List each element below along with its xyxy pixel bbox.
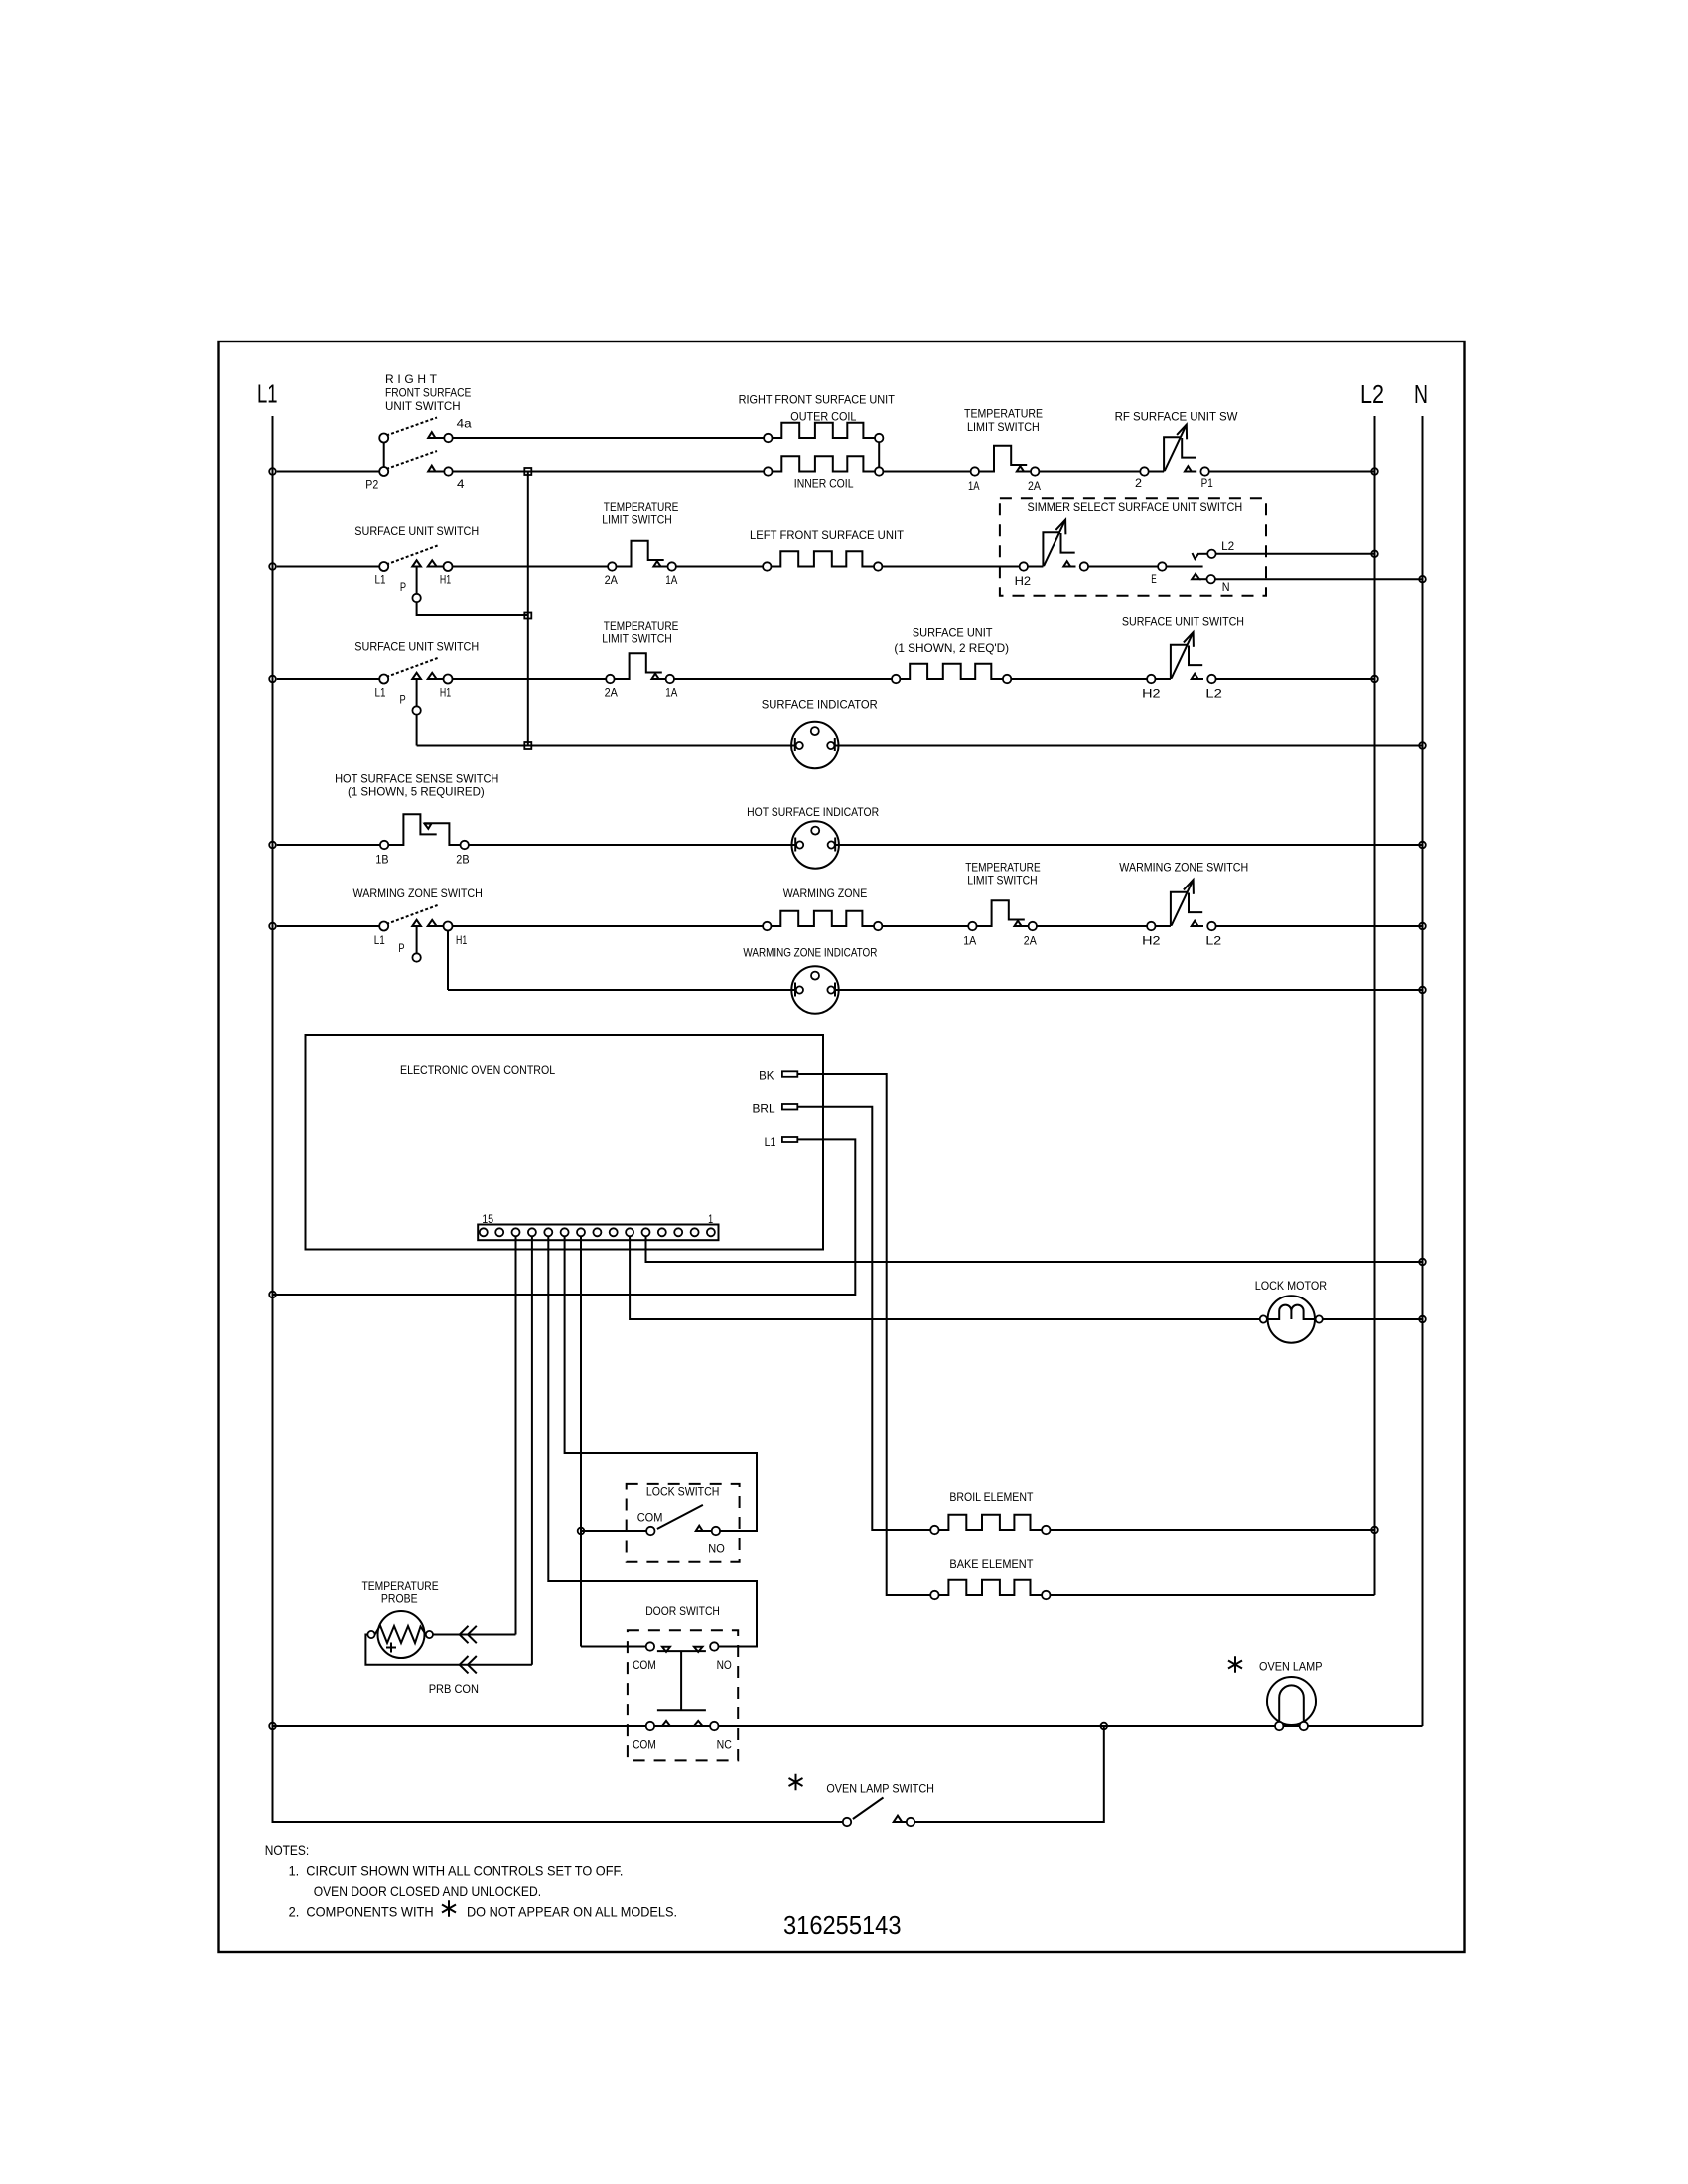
wire row2 coil to simmer box xyxy=(882,566,1019,568)
wire row1 temp limit to RF switch xyxy=(1039,471,1140,473)
motor lock motor xyxy=(1260,1296,1323,1342)
coil right front surface unit inner coil xyxy=(764,456,883,475)
wire row3 P stem to row4 xyxy=(416,715,418,746)
box electronic oven control xyxy=(306,1035,824,1250)
junction N/lock motor xyxy=(1419,1316,1426,1323)
svg-text:4: 4 xyxy=(457,478,465,491)
wire pin6 to lock motor xyxy=(630,1237,1260,1320)
wire N rail xyxy=(1422,416,1424,1726)
wire bottom row L1 to door switch xyxy=(273,1725,646,1727)
wire row2 switch to temp limit xyxy=(453,566,609,568)
svg-text:2A: 2A xyxy=(605,573,618,587)
svg-text:P: P xyxy=(400,580,406,594)
junction N/row6 xyxy=(1419,923,1426,930)
svg-text:TEMPERATURE: TEMPERATURE xyxy=(965,860,1040,874)
svg-text:HOT SURFACE INDICATOR: HOT SURFACE INDICATOR xyxy=(747,805,879,819)
wire pin11 to door switch NO xyxy=(548,1237,757,1647)
element bake element coil xyxy=(930,1580,1050,1599)
wire row5 indicator to N rail xyxy=(835,844,1423,846)
wire coil link xyxy=(878,442,880,467)
svg-text:NOTES:: NOTES: xyxy=(265,1843,310,1858)
wire row2 L1 to switch xyxy=(277,566,380,568)
svg-text:L1: L1 xyxy=(765,1135,776,1149)
terminal E xyxy=(1158,562,1166,570)
wire probe left return xyxy=(365,1635,532,1665)
connector PRB CON chevron top xyxy=(460,1626,477,1643)
svg-text:LIMIT SWITCH: LIMIT SWITCH xyxy=(602,512,672,526)
symbol asterisk oven lamp switch xyxy=(789,1774,803,1790)
svg-text:H1: H1 xyxy=(440,573,451,587)
wire L2 rail xyxy=(1374,416,1376,1595)
wire row5 L1 to sense switch xyxy=(277,844,380,846)
svg-text:1. CIRCUIT SHOWN WITH ALL CON: 1. CIRCUIT SHOWN WITH ALL CONTROLS SET T… xyxy=(289,1863,624,1879)
svg-text:TEMPERATURE: TEMPERATURE xyxy=(964,406,1043,420)
svg-text:FRONT SURFACE: FRONT SURFACE xyxy=(385,386,471,400)
wire row3 switch to temp limit xyxy=(453,678,607,680)
wire L1 pin to L1 rail xyxy=(273,1139,856,1295)
svg-text:N: N xyxy=(1222,580,1230,594)
pin BRL terminal xyxy=(782,1104,797,1110)
switch lock switch xyxy=(646,1505,720,1535)
switch RF surface unit sw xyxy=(1140,425,1209,476)
svg-text:OVEN LAMP SWITCH: OVEN LAMP SWITCH xyxy=(826,1782,934,1796)
junction N/simmer N xyxy=(1419,576,1426,583)
wire row1 coils to temp limit switch xyxy=(883,471,970,473)
svg-text:H2: H2 xyxy=(1142,934,1161,948)
svg-text:NO: NO xyxy=(717,1658,732,1672)
wire L1 rail xyxy=(273,416,843,1822)
svg-text:1A: 1A xyxy=(963,934,976,948)
svg-text:BROIL ELEMENT: BROIL ELEMENT xyxy=(949,1490,1034,1504)
svg-text:SURFACE UNIT: SURFACE UNIT xyxy=(913,625,993,639)
box door switch (dashed) xyxy=(628,1630,738,1760)
wire pin5 to N rail xyxy=(646,1237,1423,1263)
wire center vertical bus xyxy=(527,472,529,746)
svg-text:SURFACE UNIT SWITCH: SURFACE UNIT SWITCH xyxy=(354,639,479,653)
svg-text:WARMING ZONE SWITCH: WARMING ZONE SWITCH xyxy=(353,887,483,900)
junction N/row5 xyxy=(1419,842,1426,849)
svg-text:SURFACE INDICATOR: SURFACE INDICATOR xyxy=(762,697,878,711)
svg-text:1A: 1A xyxy=(665,686,677,700)
svg-text:SURFACE UNIT SWITCH: SURFACE UNIT SWITCH xyxy=(354,524,479,538)
svg-text:PRB CON: PRB CON xyxy=(429,1682,479,1696)
svg-text:NO: NO xyxy=(708,1542,725,1556)
svg-text:COM: COM xyxy=(637,1510,663,1524)
wire row6 L1 to switch xyxy=(277,925,380,927)
svg-text:LIMIT SWITCH: LIMIT SWITCH xyxy=(967,420,1040,434)
wire row6 switch to coil xyxy=(453,925,764,927)
svg-text:P2: P2 xyxy=(365,478,378,491)
switch warming zone switch right xyxy=(1147,880,1216,930)
switch temperature limit switch row3 xyxy=(606,653,674,683)
switch surface unit switch row2 xyxy=(379,546,452,603)
wire row2 P stem to bus xyxy=(417,602,528,615)
junction L2/row1 xyxy=(1371,468,1378,475)
indicator hot surface indicator xyxy=(792,821,839,868)
wire row6 H1 drop to row7 xyxy=(447,931,449,991)
wire row5 switch to indicator xyxy=(469,844,795,846)
switch temperature limit switch row1 xyxy=(971,446,1040,476)
junction bus/row2 P wire xyxy=(524,613,531,619)
svg-text:INNER COIL: INNER COIL xyxy=(794,477,854,490)
wire probe right to pin13 xyxy=(433,1634,516,1636)
svg-text:LIMIT SWITCH: LIMIT SWITCH xyxy=(602,631,672,645)
switch surface unit switch row3 xyxy=(379,658,452,715)
wire pin13 to temperature probe xyxy=(515,1237,517,1635)
junction L1/row6 xyxy=(269,923,276,930)
box lock switch (dashed) xyxy=(627,1484,740,1562)
wire row1 switch to inner coil xyxy=(453,471,764,473)
junction L1/bottom row xyxy=(269,1723,276,1730)
svg-text:2B: 2B xyxy=(456,853,469,867)
svg-text:COM: COM xyxy=(633,1738,656,1752)
symbol asterisk note 2 xyxy=(442,1900,456,1916)
svg-text:E: E xyxy=(1151,572,1157,586)
wire BRL to broil element xyxy=(797,1107,930,1530)
svg-text:NC: NC xyxy=(717,1738,732,1752)
wire pin10 to lock switch NO xyxy=(565,1237,757,1532)
svg-text:LEFT FRONT SURFACE UNIT: LEFT FRONT SURFACE UNIT xyxy=(750,528,905,542)
svg-text:L1: L1 xyxy=(375,573,386,587)
box simmer select surface unit switch (dashed) xyxy=(1000,498,1266,595)
svg-text:H1: H1 xyxy=(456,933,467,947)
junction L1/row3 xyxy=(269,676,276,683)
wire row7 warming indicator line left xyxy=(448,989,795,991)
probe temperature probe xyxy=(367,1611,433,1658)
svg-text:OUTER COIL: OUTER COIL xyxy=(790,409,856,423)
coil warming zone xyxy=(763,911,882,930)
svg-text:1B: 1B xyxy=(375,853,388,867)
wire BK to bake element xyxy=(797,1074,930,1595)
svg-text:15: 15 xyxy=(482,1212,493,1226)
svg-text:P1: P1 xyxy=(1201,477,1213,490)
junction L1/row2 xyxy=(269,563,276,570)
wire broil to L2 rail xyxy=(1051,1529,1375,1531)
junction L2/broil xyxy=(1371,1527,1378,1534)
wire bake to L2 rail xyxy=(1051,1594,1375,1596)
junction N/pin5 wire xyxy=(1419,1259,1426,1266)
svg-text:L1: L1 xyxy=(375,685,386,699)
switch door switch lower pole xyxy=(646,1721,719,1730)
wire row2 temp limit to coil xyxy=(676,566,763,568)
svg-text:DOOR SWITCH: DOOR SWITCH xyxy=(645,1604,720,1618)
svg-text:2A: 2A xyxy=(605,686,618,700)
coil surface unit row3 xyxy=(892,664,1011,683)
wire row6 coil to temp limit xyxy=(882,925,968,927)
svg-text:WARMING ZONE SWITCH: WARMING ZONE SWITCH xyxy=(1119,860,1248,874)
svg-text:UNIT SWITCH: UNIT SWITCH xyxy=(385,399,461,413)
wire row1 4a line xyxy=(453,437,764,439)
wire row1 RF switch to L2 xyxy=(1209,471,1375,473)
junction bottom row/lamp switch xyxy=(1101,1723,1108,1730)
junction L2/row3 xyxy=(1371,676,1378,683)
junction L2/simmer L2 xyxy=(1371,551,1378,558)
svg-text:L2: L2 xyxy=(1205,687,1222,701)
svg-text:BRL: BRL xyxy=(753,1101,775,1115)
junction bus/row1 xyxy=(524,468,531,475)
contact simmer L2 (v mark) xyxy=(1193,553,1199,559)
wire row6 temp limit to switch xyxy=(1037,925,1147,927)
wire row3 to L2 rail xyxy=(1216,678,1375,680)
wire E stub xyxy=(1167,566,1203,568)
svg-text:2A: 2A xyxy=(1024,934,1037,948)
svg-text:1A: 1A xyxy=(665,573,677,587)
svg-text:ELECTRONIC OVEN CONTROL: ELECTRONIC OVEN CONTROL xyxy=(400,1063,555,1077)
junction L1/row5 xyxy=(269,842,276,849)
svg-text:OVEN DOOR CLOSED AND UNLOCKED.: OVEN DOOR CLOSED AND UNLOCKED. xyxy=(314,1883,541,1899)
wire lock motor to N rail xyxy=(1323,1318,1423,1320)
svg-text:WARMING ZONE: WARMING ZONE xyxy=(783,887,868,900)
svg-text:H1: H1 xyxy=(440,685,451,699)
svg-text:HOT SURFACE SENSE SWITCH: HOT SURFACE SENSE SWITCH xyxy=(335,771,498,785)
pin L1 terminal xyxy=(782,1137,797,1142)
junction L1/row1 xyxy=(269,468,276,475)
wire row3 temp limit to coil xyxy=(674,678,892,680)
svg-text:P: P xyxy=(400,693,406,707)
svg-text:BAKE ELEMENT: BAKE ELEMENT xyxy=(949,1557,1034,1570)
wire simmer L2 contact to L2 rail xyxy=(1216,553,1375,555)
svg-text:2. COMPONENTS WITH: 2. COMPONENTS WITH xyxy=(289,1904,434,1920)
svg-text:L2: L2 xyxy=(1221,539,1234,553)
svg-text:(1 SHOWN, 5 REQUIRED): (1 SHOWN, 5 REQUIRED) xyxy=(348,784,485,798)
wire lamp switch to bottom row xyxy=(914,1726,1104,1822)
wire simmer switch to E xyxy=(1088,566,1158,568)
wire row6 to N rail xyxy=(1216,925,1423,927)
svg-text:P: P xyxy=(398,941,404,955)
switch temperature limit switch row6 xyxy=(968,900,1037,930)
junction bus/row4 xyxy=(524,742,531,749)
indicator warming zone indicator xyxy=(791,966,838,1013)
svg-text:L1: L1 xyxy=(374,933,385,947)
switch right front surface unit switch P2 xyxy=(379,418,452,477)
connector PRB CON chevron bottom xyxy=(460,1656,477,1673)
border frame xyxy=(219,341,1465,1952)
switch surface unit switch row3 right xyxy=(1147,632,1216,683)
indicator surface indicator xyxy=(791,722,838,768)
switch hot surface sense switch xyxy=(380,814,469,849)
svg-text:RIGHT: RIGHT xyxy=(385,372,438,386)
wire pin9 to lock COM and door COM xyxy=(581,1237,646,1647)
element broil element coil xyxy=(930,1515,1050,1534)
wire row1 L1 to switch xyxy=(277,471,380,473)
junction N/row7 xyxy=(1419,987,1426,994)
svg-text:LIMIT SWITCH: LIMIT SWITCH xyxy=(967,873,1037,887)
actuator door switch link xyxy=(657,1651,706,1710)
wire row3 L1 to switch xyxy=(277,678,380,680)
symbol asterisk oven lamp xyxy=(1228,1656,1242,1672)
svg-text:316255143: 316255143 xyxy=(783,1910,902,1940)
svg-text:RF SURFACE UNIT SW: RF SURFACE UNIT SW xyxy=(1115,409,1238,423)
switch door switch upper pole xyxy=(646,1642,719,1652)
svg-text:L2: L2 xyxy=(1360,379,1384,409)
svg-text:COM: COM xyxy=(633,1658,656,1672)
svg-text:1A: 1A xyxy=(968,479,980,493)
wire row4 indicator to N rail xyxy=(834,745,1422,747)
wire simmer N contact to N rail xyxy=(1215,578,1423,580)
svg-text:RIGHT FRONT SURFACE UNIT: RIGHT FRONT SURFACE UNIT xyxy=(739,393,896,407)
svg-text:BK: BK xyxy=(759,1069,774,1083)
svg-text:DO NOT APPEAR ON ALL MODELS.: DO NOT APPEAR ON ALL MODELS. xyxy=(467,1904,677,1920)
svg-text:PROBE: PROBE xyxy=(381,1591,418,1605)
pin BK terminal xyxy=(782,1071,797,1077)
coil left front surface unit xyxy=(763,551,882,570)
svg-text:2A: 2A xyxy=(1028,479,1041,493)
svg-text:LOCK SWITCH: LOCK SWITCH xyxy=(646,1485,720,1499)
svg-text:L2: L2 xyxy=(1205,934,1221,948)
switch temperature limit switch row2 xyxy=(608,541,676,571)
svg-text:H2: H2 xyxy=(1142,687,1161,701)
svg-text:OVEN LAMP: OVEN LAMP xyxy=(1259,1660,1323,1674)
junction N/row4 xyxy=(1419,742,1426,749)
wire bottom row door switch to N rail xyxy=(719,1725,1423,1727)
junction pin9/lock COM xyxy=(578,1528,585,1535)
svg-text:SIMMER SELECT SURFACE UNIT SWI: SIMMER SELECT SURFACE UNIT SWITCH xyxy=(1028,500,1243,514)
wire row4 surface indicator line left xyxy=(417,745,795,747)
wire row7 indicator to N rail xyxy=(835,989,1423,991)
lamp oven lamp xyxy=(1267,1677,1316,1730)
svg-text:1: 1 xyxy=(708,1212,713,1226)
switch oven lamp switch xyxy=(843,1798,914,1827)
contact simmer N (triangle) xyxy=(1192,574,1199,580)
svg-text:L1: L1 xyxy=(257,379,278,409)
svg-text:WARMING ZONE INDICATOR: WARMING ZONE INDICATOR xyxy=(743,945,877,959)
svg-text:4a: 4a xyxy=(457,417,472,431)
switch simmer select RF switch xyxy=(1020,520,1089,571)
svg-text:LOCK MOTOR: LOCK MOTOR xyxy=(1255,1279,1328,1293)
svg-text:SURFACE UNIT SWITCH: SURFACE UNIT SWITCH xyxy=(1122,614,1244,628)
wire row3 coil to switch xyxy=(1011,678,1147,680)
svg-text:(1 SHOWN, 2 REQ'D): (1 SHOWN, 2 REQ'D) xyxy=(894,641,1009,655)
svg-text:N: N xyxy=(1414,379,1428,409)
coil right front surface unit outer coil xyxy=(764,423,883,442)
wire pin12 to probe return xyxy=(531,1237,533,1665)
switch warming zone switch xyxy=(379,905,452,962)
svg-text:2: 2 xyxy=(1135,477,1142,490)
connector terminal strip 15..1 xyxy=(478,1225,718,1241)
junction L1/EOC wire xyxy=(269,1292,276,1298)
svg-text:H2: H2 xyxy=(1015,574,1032,588)
